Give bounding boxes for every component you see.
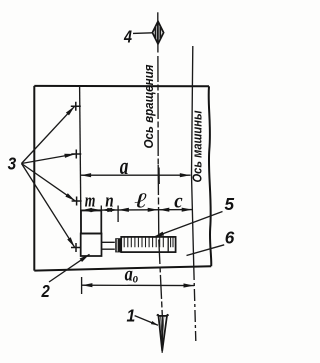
diamond symbol (part 4) [152,21,163,44]
svg-text:n: n [105,190,113,211]
leader 3 to cross 2 [22,154,76,164]
inner vertical reference line [80,86,81,233]
svg-text:Ось вращения: Ось вращения [142,64,156,149]
leader 3 to cross 3 [22,164,76,201]
chain dimension line m n l c [81,209,192,212]
tick on rotation axis for dim a [158,168,160,185]
ruler right cell divider [167,237,169,252]
leader 1 [135,316,158,326]
svg-text:6: 6 [225,227,235,247]
cross mark 2 [71,150,81,159]
leader 2 [49,254,90,282]
ruler graduation ticks [124,237,163,247]
svg-text:ℓ: ℓ [135,189,148,213]
leader 6 [187,245,225,256]
dimension a0 line [82,284,195,286]
svg-text:c: c [174,190,182,213]
ruler (part 5) body [121,237,175,252]
svg-text:Ось машины: Ось машины [191,110,205,182]
extension tick at x118 [117,206,119,223]
svg-text:2: 2 [41,282,50,301]
plate outline (part 6) [34,85,209,87]
leader 3 to cross 4 [22,164,75,248]
ruler left end cap (dark) [115,238,121,252]
dimension a line [80,174,190,176]
plumb bob (part 1) [157,315,168,316]
svg-text:m: m [85,190,96,210]
svg-text:1: 1 [127,306,136,326]
component 2 lower box [81,234,102,257]
leader 3 to cross 1 [22,106,75,163]
leader 4 [133,32,152,35]
svg-text:4: 4 [123,28,132,47]
svg-text:5: 5 [225,194,235,214]
shaft between holder and ruler [102,242,115,249]
rotation axis (dash-dot vertical) [157,12,159,21]
cross mark 3 [72,197,82,206]
extension tick at x101 [100,206,102,223]
extension tick at x81.6 [81,277,83,294]
svg-text:a: a [120,152,129,180]
cross mark 4 [71,243,81,252]
component 2 upper box [81,211,101,234]
machine axis vertical [192,46,194,268]
leader 5 [154,212,223,238]
svg-text:3: 3 [8,155,17,174]
cross mark 1 [71,102,81,111]
